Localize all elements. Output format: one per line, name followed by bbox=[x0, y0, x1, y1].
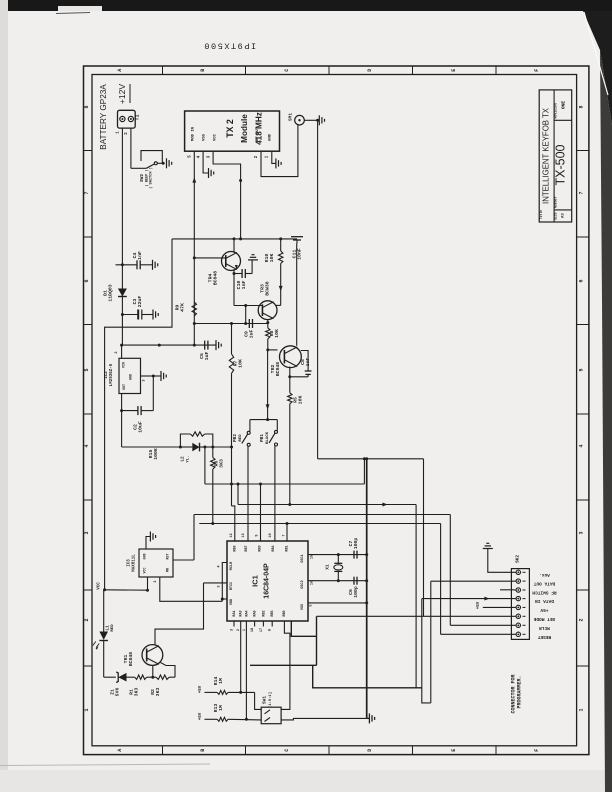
svg-text:47K: 47K bbox=[180, 303, 186, 312]
svg-text:3K3: 3K3 bbox=[155, 688, 161, 697]
svg-text:3: 3 bbox=[208, 155, 212, 158]
svg-text:RB7: RB7 bbox=[245, 545, 249, 551]
svg-text:PB2: PB2 bbox=[233, 434, 238, 442]
resistor R13 1M bbox=[205, 718, 218, 720]
wire RB1 stub to H523 bbox=[286, 524, 288, 542]
svg-text:INTELLIGENT KEYFOB TX: INTELLIGENT KEYFOB TX bbox=[542, 107, 551, 204]
wire T1 pin1 to VIN rail bbox=[121, 128, 123, 345]
frame zone ticks right band bbox=[577, 150, 589, 152]
svg-text:D: D bbox=[367, 749, 373, 752]
scanner black top bar bbox=[0, 0, 612, 11]
svg-text:RF SWITCH: RF SWITCH bbox=[532, 590, 557, 596]
svg-text:MAX811L: MAX811L bbox=[133, 554, 137, 572]
svg-text:5V6: 5V6 bbox=[115, 688, 121, 697]
node MOD-IN junction and C9 line bbox=[193, 322, 196, 325]
TR3 collector wire bbox=[276, 304, 281, 306]
svg-text:[1:0:1]: [1:0:1] bbox=[268, 692, 273, 708]
svg-text:13: 13 bbox=[242, 533, 246, 537]
IC1 OSC1 wire bbox=[308, 554, 367, 556]
SET MODE line bbox=[316, 616, 318, 665]
connector SK2 bbox=[511, 569, 529, 640]
svg-text:RA4: RA4 bbox=[246, 610, 250, 616]
svg-text:PROGRAMMER.: PROGRAMMER. bbox=[517, 675, 523, 708]
SET MODE vertical bbox=[423, 459, 425, 617]
svg-text:RA3: RA3 bbox=[240, 610, 244, 616]
svg-text:DATA OUT: DATA OUT bbox=[533, 581, 555, 587]
bus line H514 MCLR net bbox=[194, 514, 450, 516]
svg-text:RB5: RB5 bbox=[271, 610, 275, 616]
svg-text:3K3: 3K3 bbox=[134, 688, 140, 697]
svg-text:6: 6 bbox=[84, 279, 90, 282]
svg-text:4: 4 bbox=[218, 565, 222, 568]
frame outer border bbox=[84, 66, 589, 755]
frame inner border bbox=[92, 75, 577, 746]
capacitor C10 1nF bbox=[233, 272, 236, 275]
bus line H459 to SET MODE drop bbox=[318, 458, 424, 460]
capacitor C11 10nF bbox=[291, 236, 303, 238]
wire to SW2 pivot bbox=[131, 167, 146, 169]
svg-text:BC848: BC848 bbox=[275, 362, 281, 377]
svg-text:PB1: PB1 bbox=[260, 434, 265, 442]
wire H504 corner down bbox=[415, 505, 417, 688]
IC2 output pin wire bbox=[121, 394, 123, 448]
TR1 emitter wire bbox=[161, 663, 176, 678]
svg-text:MOD IN: MOD IN bbox=[192, 126, 196, 141]
svg-text:RF OUT: RF OUT bbox=[256, 126, 260, 141]
PB2 wire to IC1 RB7 bbox=[247, 446, 249, 541]
capacitor C3 22uF bbox=[122, 314, 138, 316]
SK2 pin2 wire bbox=[431, 580, 514, 582]
svg-text:LM2936Z-5: LM2936Z-5 bbox=[110, 363, 114, 386]
SK2 pin7 wire bbox=[450, 624, 514, 626]
transistor TR1 BC848 bbox=[142, 645, 163, 666]
ground bus vertical bbox=[366, 459, 368, 719]
svg-text:Module: Module bbox=[240, 114, 249, 143]
IC1 left pin stubs bbox=[204, 582, 228, 584]
svg-text:18: 18 bbox=[251, 628, 255, 632]
svg-text:1: 1 bbox=[579, 708, 585, 711]
connector SM1 bbox=[295, 115, 305, 125]
svg-text:6: 6 bbox=[579, 279, 585, 282]
resistor R15 100K parallel loop bbox=[180, 434, 190, 447]
capacitor C6 100p bbox=[353, 577, 355, 585]
regulator input line VIN bbox=[122, 344, 216, 346]
transistor TR2 BC848 bbox=[280, 346, 302, 368]
svg-text:5: 5 bbox=[84, 368, 90, 371]
svg-text:GND: GND bbox=[130, 374, 134, 380]
svg-text:RB6: RB6 bbox=[234, 545, 238, 551]
svg-text:2: 2 bbox=[84, 618, 90, 621]
crystal X1 bbox=[337, 555, 339, 564]
svg-text:IC3: IC3 bbox=[128, 559, 132, 567]
module TX2 418MHz box bbox=[185, 111, 280, 151]
wire TR2 base node down to pushbuttons bbox=[267, 350, 269, 420]
svg-text:RB1: RB1 bbox=[286, 545, 290, 551]
battery connector T1 bbox=[118, 110, 136, 128]
svg-text:16: 16 bbox=[311, 581, 315, 585]
svg-text:7: 7 bbox=[84, 191, 90, 194]
resistor R5 10K bbox=[288, 393, 292, 404]
ground symbol at bus bottom bbox=[367, 717, 370, 719]
svg-text:( SWITCH ): ( SWITCH ) bbox=[148, 167, 153, 189]
TR3 emitter wire bbox=[267, 319, 269, 322]
svg-text:+5V: +5V bbox=[199, 712, 203, 720]
svg-text:IP9TX500: IP9TX500 bbox=[203, 41, 256, 51]
svg-text:3: 3 bbox=[579, 531, 585, 534]
RB6 chain continues to IC1 bbox=[231, 447, 233, 506]
svg-text:BC848: BC848 bbox=[128, 652, 134, 667]
resistor R9 47K bbox=[192, 302, 196, 316]
svg-text:2: 2 bbox=[255, 155, 259, 158]
svg-text:TX-500: TX-500 bbox=[554, 144, 568, 185]
LED L1 chain bbox=[103, 590, 105, 632]
microcontroller IC1 16C84-04P bbox=[227, 541, 308, 621]
svg-text:GND: GND bbox=[143, 554, 147, 560]
svg-text:10K: 10K bbox=[298, 396, 304, 405]
svg-text:3: 3 bbox=[218, 585, 222, 587]
svg-text:8: 8 bbox=[579, 105, 585, 108]
TR1 collector chain bbox=[155, 583, 204, 646]
svg-text:VCC: VCC bbox=[213, 133, 217, 141]
svg-text:F: F bbox=[534, 69, 540, 72]
arrow on MOD IN line bbox=[192, 177, 196, 182]
svg-text:RB4: RB4 bbox=[272, 545, 276, 551]
svg-text:1M: 1M bbox=[218, 678, 224, 684]
svg-text:VCC: VCC bbox=[143, 568, 147, 574]
svg-text:5: 5 bbox=[189, 155, 193, 158]
svg-text:8: 8 bbox=[269, 629, 273, 631]
ground above C10 bbox=[248, 259, 258, 261]
svg-text:RB2: RB2 bbox=[262, 610, 266, 616]
wire H504 left corner bbox=[237, 484, 239, 505]
IC1 VSS wire to ground bus bbox=[308, 602, 367, 604]
svg-text:SET MODE: SET MODE bbox=[533, 616, 555, 622]
svg-text:15: 15 bbox=[311, 555, 315, 559]
bus line H504 DATA OUT bbox=[238, 504, 416, 506]
wire TX2 pin2 RF OUT to SM1 bbox=[261, 125, 298, 177]
svg-text:VDD: VDD bbox=[230, 599, 234, 605]
svg-text:OSC2: OSC2 bbox=[301, 580, 305, 588]
svg-text:5: 5 bbox=[579, 368, 585, 371]
DATA OUT drop bbox=[430, 581, 432, 703]
wire R5 down to data-out bus bbox=[289, 404, 291, 505]
TR4 collector wire to rail bbox=[233, 239, 235, 253]
svg-text:+12V: +12V bbox=[117, 84, 127, 105]
svg-text:1uF: 1uF bbox=[204, 352, 210, 361]
svg-text:17: 17 bbox=[260, 628, 264, 632]
frame zone ticks top band bbox=[162, 66, 164, 75]
TR2 collector side wire to C8 bbox=[301, 351, 308, 372]
resistor R1 3K3 bbox=[135, 675, 147, 679]
transistor TR3 BCW38 bbox=[258, 301, 277, 320]
svg-text:L2: L2 bbox=[181, 456, 186, 462]
svg-text:A3: A3 bbox=[562, 213, 566, 218]
resistor R7 10K on RB6 chain bbox=[231, 324, 233, 355]
svg-text:RA0: RA0 bbox=[254, 610, 258, 616]
SW2 loop wire bbox=[141, 151, 162, 164]
frame zone ticks left band bbox=[84, 150, 93, 152]
wire R8 to TR2 base bbox=[268, 349, 278, 351]
svg-text:ONE: ONE bbox=[561, 101, 567, 110]
svg-text:16C84-04P: 16C84-04P bbox=[264, 563, 271, 599]
SK2 pin8 wire bbox=[441, 633, 514, 635]
wire to IC1 MCLR bbox=[222, 563, 227, 602]
svg-text:TX 2: TX 2 bbox=[225, 119, 235, 138]
svg-text:1: 1 bbox=[266, 155, 270, 158]
wire IC1 RA pin to R13 node bbox=[245, 621, 247, 719]
transistor TR4 BC848 bbox=[222, 252, 241, 271]
IC3 VCC pin wire bbox=[147, 577, 149, 590]
svg-text:3: 3 bbox=[231, 629, 235, 631]
svg-text:1: 1 bbox=[117, 131, 121, 134]
resistor R6 3K3 bbox=[211, 457, 215, 469]
capacitor C8 1nF bbox=[305, 370, 312, 372]
svg-text:Size: Size bbox=[554, 212, 558, 220]
IC2 gnd pin wire bbox=[141, 375, 154, 377]
MCLR drop bbox=[449, 515, 451, 626]
svg-text:100p: 100p bbox=[353, 586, 359, 598]
capacitor C5 1uF bbox=[204, 341, 206, 350]
svg-text:B: B bbox=[200, 749, 206, 752]
capacitor C9 1uF bbox=[248, 319, 250, 328]
svg-text:RB3: RB3 bbox=[259, 545, 263, 551]
scan background shading bbox=[0, 0, 8, 792]
bus line H523 RESET net bbox=[199, 523, 440, 525]
wire IC3 MR to bus bbox=[193, 515, 195, 561]
svg-text:X1: X1 bbox=[325, 564, 331, 570]
svg-text:1nF: 1nF bbox=[305, 358, 311, 367]
svg-text:3K3: 3K3 bbox=[219, 459, 225, 468]
SW1 right top pin to IC1 bbox=[281, 621, 290, 709]
wire TX2 pin5 MOD IN line bbox=[193, 151, 195, 323]
svg-text:BATTERY GP23A: BATTERY GP23A bbox=[99, 84, 108, 150]
supply rail bbox=[172, 238, 297, 240]
reset IC3 MAX811L bbox=[139, 549, 173, 577]
pushbutton PB1 BLACK bbox=[275, 430, 278, 433]
svg-text:VCC: VCC bbox=[98, 582, 102, 590]
pushbutton PB2 RED bbox=[247, 431, 250, 434]
PB1 wire to IC1 RB4 bbox=[274, 446, 276, 541]
IC1 bottom short stubs bbox=[233, 621, 235, 627]
svg-text:4: 4 bbox=[84, 444, 90, 447]
5V wire to IC3 bbox=[105, 589, 148, 591]
wire TX2 pin1 GND bbox=[272, 151, 276, 163]
svg-text:4: 4 bbox=[579, 444, 585, 447]
svg-text:SK2: SK2 bbox=[515, 555, 521, 563]
svg-text:4: 4 bbox=[198, 155, 202, 158]
lower staircase bbox=[250, 664, 317, 666]
svg-text:8: 8 bbox=[84, 105, 90, 108]
bus line H484 bbox=[205, 483, 365, 485]
svg-text:1M: 1M bbox=[218, 705, 224, 711]
svg-text:OUT: OUT bbox=[123, 384, 127, 390]
svg-text:7: 7 bbox=[579, 191, 585, 194]
wire L2 node to R7 chain bbox=[213, 446, 232, 448]
capacitor C2 10uF bbox=[122, 410, 138, 412]
svg-text:VIN: VIN bbox=[123, 362, 127, 368]
rail corner to regulator output bbox=[105, 239, 172, 590]
title block bbox=[539, 90, 572, 222]
svg-text:22uF: 22uF bbox=[137, 296, 143, 308]
svg-text:BCW38: BCW38 bbox=[265, 281, 271, 296]
TR2 emitter wire bbox=[289, 367, 291, 393]
svg-text:YL.: YL. bbox=[186, 455, 190, 462]
TR3 base drop to C9 line bbox=[245, 306, 247, 324]
svg-text:A: A bbox=[117, 749, 123, 752]
svg-text:Aux.: Aux. bbox=[539, 572, 550, 578]
svg-text:Revision: Revision bbox=[554, 103, 558, 118]
svg-text:3: 3 bbox=[143, 379, 147, 381]
svg-text:DATA IN: DATA IN bbox=[535, 598, 554, 604]
svg-text:SW2: SW2 bbox=[139, 174, 145, 182]
IC3 top pin to ground bbox=[146, 537, 150, 550]
svg-text:3: 3 bbox=[84, 531, 90, 534]
svg-text:D: D bbox=[367, 69, 373, 72]
staircase wire IC1 RB0 to connector bbox=[291, 621, 316, 636]
SK2 pin4 wire DATA IN bbox=[422, 598, 514, 600]
diode D1 bbox=[118, 289, 127, 297]
svg-text:IC2: IC2 bbox=[105, 371, 109, 379]
svg-text:Title: Title bbox=[539, 210, 543, 220]
wire TX2 pin3 VCC to rail bbox=[213, 151, 241, 239]
svg-text:+5V: +5V bbox=[199, 685, 203, 693]
zener Z1 5V6 bbox=[104, 676, 116, 678]
svg-text:5: 5 bbox=[310, 604, 314, 606]
ground at SM1 bbox=[318, 115, 320, 125]
svg-text:RESET: RESET bbox=[537, 634, 551, 640]
svg-text:E: E bbox=[451, 749, 457, 752]
svg-text:2: 2 bbox=[154, 580, 158, 582]
resistor R10 10K bbox=[279, 251, 283, 264]
svg-text:1nF: 1nF bbox=[241, 281, 247, 290]
svg-text:MCLR: MCLR bbox=[539, 625, 550, 631]
svg-text:RED: RED bbox=[239, 434, 243, 442]
wire SM1 long line down bbox=[317, 120, 319, 459]
TR1 base wire from divider bbox=[152, 665, 154, 677]
svg-text:MR: MR bbox=[166, 568, 170, 572]
svg-text:GND: GND bbox=[269, 133, 273, 141]
resistor R14 1M bbox=[205, 691, 218, 693]
svg-text:A: A bbox=[117, 69, 123, 72]
wire SM1 to ground and tap bbox=[304, 119, 319, 121]
svg-text:Number: Number bbox=[554, 196, 558, 208]
svg-text:B: B bbox=[200, 69, 206, 72]
svg-text:L1: L1 bbox=[106, 625, 111, 631]
svg-text:2: 2 bbox=[579, 618, 585, 621]
wire from L2 node down to H484 bbox=[204, 447, 206, 484]
svg-text:1nF: 1nF bbox=[137, 251, 143, 260]
resistor R2 3K3 bbox=[156, 675, 169, 679]
svg-text:9: 9 bbox=[255, 534, 259, 536]
svg-text:BC848: BC848 bbox=[213, 271, 219, 286]
wire down to C5 line bbox=[193, 324, 195, 346]
wire TX2 pin4 VSS bbox=[203, 151, 208, 173]
svg-text:SW1: SW1 bbox=[263, 696, 268, 704]
wire T1 pin2 down bbox=[130, 128, 132, 168]
svg-text:BLACK: BLACK bbox=[266, 431, 270, 444]
svg-text:MCLR: MCLR bbox=[230, 561, 234, 570]
svg-text:VSS: VSS bbox=[301, 604, 305, 610]
TR4 emitter wire down bbox=[233, 269, 235, 305]
svg-text:10uF: 10uF bbox=[138, 421, 144, 433]
pushbutton feed wire bbox=[250, 419, 277, 421]
LED L2 with parallel R15 100K bbox=[122, 446, 181, 448]
svg-text:RST: RST bbox=[166, 554, 170, 560]
dip switch SW1 bbox=[261, 707, 281, 724]
wire R14 line to SW1 pin1 bbox=[255, 692, 262, 709]
svg-text:12: 12 bbox=[230, 533, 234, 537]
switch SW2 bbox=[146, 164, 154, 168]
svg-text:10K: 10K bbox=[238, 359, 244, 368]
arrow on R10 line bbox=[279, 286, 283, 291]
IC3 reset output pin2 wire bbox=[160, 577, 223, 601]
wire RB3 drop bbox=[260, 484, 262, 541]
svg-text:7: 7 bbox=[282, 534, 286, 536]
capacitor C4 bbox=[116, 264, 138, 266]
frame zone ticks bottom band bbox=[162, 746, 164, 755]
svg-text:+5V: +5V bbox=[477, 601, 481, 609]
svg-text:OSC1: OSC1 bbox=[301, 554, 305, 562]
RESET drop bbox=[440, 524, 442, 635]
svg-text:RB0: RB0 bbox=[283, 610, 287, 616]
svg-text:T1: T1 bbox=[135, 114, 141, 120]
ground at SW2 bbox=[166, 158, 168, 168]
svg-text:C: C bbox=[284, 749, 290, 752]
SK2 pin1 ground bbox=[488, 549, 514, 573]
TR3 base wire bbox=[234, 305, 262, 307]
SK2 pin5 +5V bbox=[483, 606, 514, 608]
LED L1 bbox=[99, 632, 108, 640]
wire IC1 RA pin to R14 node bbox=[240, 621, 242, 692]
capacitor C7 100p bbox=[353, 551, 355, 559]
SK2 pin3 stub bbox=[500, 589, 514, 591]
bus corner up to antenna line bbox=[363, 459, 365, 484]
DATA IN riser bbox=[422, 599, 431, 703]
svg-text:E: E bbox=[451, 69, 457, 72]
svg-text:VSS: VSS bbox=[202, 133, 206, 141]
svg-text:11DQ03: 11DQ03 bbox=[108, 284, 114, 301]
IC2 top pin wire bbox=[121, 345, 123, 358]
regulator IC2 LM2936Z-5 bbox=[119, 358, 141, 393]
svg-text:F: F bbox=[534, 749, 540, 752]
ground at TX2 pin1 bbox=[275, 158, 277, 168]
svg-text:1: 1 bbox=[84, 708, 90, 711]
IC1 OSC2 wire bbox=[308, 580, 367, 582]
SW1 bottom right pin to ground bbox=[281, 718, 367, 720]
svg-text:RTCC: RTCC bbox=[230, 582, 234, 590]
svg-text:1uF: 1uF bbox=[249, 330, 255, 339]
svg-text:2: 2 bbox=[115, 351, 119, 353]
svg-text:10K: 10K bbox=[269, 254, 275, 263]
svg-text:+5V: +5V bbox=[540, 607, 548, 613]
svg-text:RA1: RA1 bbox=[233, 610, 237, 616]
svg-text:2: 2 bbox=[125, 132, 129, 135]
ground at TX2 VSS bbox=[208, 168, 210, 178]
svg-text:10K: 10K bbox=[274, 329, 280, 338]
svg-text:100p: 100p bbox=[353, 538, 359, 550]
resistor R8 10K bbox=[267, 323, 269, 328]
svg-text:10nF: 10nF bbox=[297, 248, 303, 260]
svg-text:RED: RED bbox=[111, 624, 115, 632]
LED L2 diode bbox=[192, 443, 199, 452]
svg-text:100K: 100K bbox=[153, 448, 159, 460]
svg-text:IC1: IC1 bbox=[251, 575, 260, 587]
svg-text:10: 10 bbox=[269, 533, 273, 537]
svg-text:C: C bbox=[284, 69, 290, 72]
svg-text:SM1: SM1 bbox=[289, 113, 294, 121]
TR4 base wire bbox=[194, 257, 226, 259]
